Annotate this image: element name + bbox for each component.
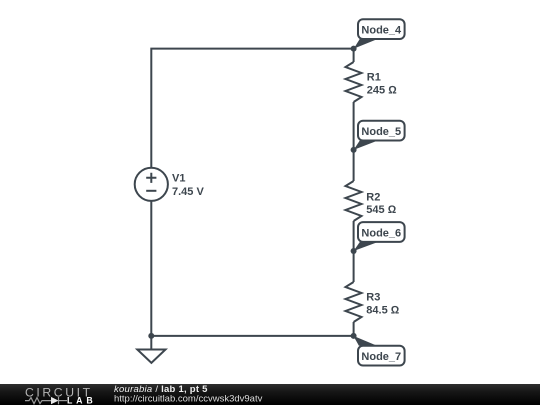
logo resistor-diode line — [25, 397, 67, 404]
svg-text:84.5 Ω: 84.5 Ω — [366, 305, 399, 317]
node Node_5 label box — [358, 121, 405, 141]
logo diode triangle — [51, 397, 59, 404]
svg-text:Node_7: Node_7 — [361, 351, 401, 363]
voltage source V1 circle — [135, 168, 168, 201]
svg-text:R1: R1 — [367, 72, 381, 84]
node Node_4 label box — [358, 19, 405, 39]
junction dot node7 — [351, 333, 357, 339]
node Node_7 callout pointer — [353, 336, 377, 346]
junction dot node6 — [351, 248, 357, 254]
svg-text:Node_4: Node_4 — [361, 25, 402, 37]
node Node_6 callout pointer — [354, 242, 378, 251]
svg-text:V1: V1 — [172, 173, 185, 185]
svg-text:545 Ω: 545 Ω — [366, 204, 396, 216]
svg-text:R3: R3 — [366, 291, 380, 303]
wire node5 to R2 — [353, 150, 355, 181]
wire R3 to node7 — [353, 322, 355, 336]
wire left rail bottom: V1 bottom down and across to Node_7 — [151, 201, 353, 336]
resistor R3 — [346, 282, 362, 322]
wire R2 to node6 — [353, 221, 355, 251]
svg-text:7.45 V: 7.45 V — [172, 186, 204, 198]
node Node_6 label box — [358, 222, 405, 242]
node Node_4 callout pointer — [354, 39, 378, 49]
junction dot node4 — [351, 46, 357, 52]
svg-text:Node_6: Node_6 — [361, 228, 401, 240]
svg-text:Node_5: Node_5 — [361, 126, 401, 138]
node Node_7 label box — [358, 346, 405, 366]
junction dot ground — [148, 333, 154, 339]
svg-text:LAB: LAB — [67, 396, 96, 405]
resistor R2 — [346, 181, 362, 221]
V1 minus sign — [146, 190, 156, 192]
ground symbol — [150, 336, 152, 350]
svg-text:http://circuitlab.com/ccvwsk3d: http://circuitlab.com/ccvwsk3dv9atv — [114, 394, 263, 405]
wire node4 to R1 — [353, 49, 355, 62]
V1 plus sign — [146, 173, 156, 183]
resistor R1 — [346, 62, 362, 102]
svg-text:R2: R2 — [366, 191, 380, 203]
node Node_5 callout pointer — [354, 141, 378, 150]
svg-text:245 Ω: 245 Ω — [367, 85, 397, 97]
wire R1 to node5 — [353, 102, 355, 150]
wire left rail top: V1 top up and across to Node_4 — [151, 49, 353, 168]
junction dot node5 — [351, 147, 357, 153]
wire node6 to R3 — [353, 251, 355, 282]
